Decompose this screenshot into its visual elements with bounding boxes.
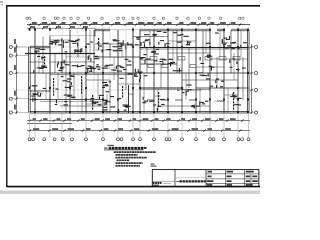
columns [29,29,249,114]
plan interior horizontal walls [25,37,249,107]
small boxes in rooms [148,57,240,68]
plan interior vertical walls [35,30,243,113]
bottom dimension lines [27,114,250,138]
sheet bottom border [7,186,261,188]
figure title header [104,145,147,150]
left axis bubbles and dim line [9,39,29,114]
top axis bubbles [26,17,244,19]
scan gray band bottom [0,191,260,195]
sheet left border [6,5,8,187]
bottom axis bubbles [28,138,250,141]
plan outer walls [29,29,249,113]
notes text [114,152,156,166]
plan annotation text blobs [31,31,247,113]
top dimension line [27,22,250,29]
hatched wall segments [30,56,225,103]
axis grid lines [13,20,254,113]
sheet top border [7,5,261,7]
title block [151,164,259,187]
scan smudge top-left [0,1,3,5]
right axis bubbles and dim line [249,44,258,114]
